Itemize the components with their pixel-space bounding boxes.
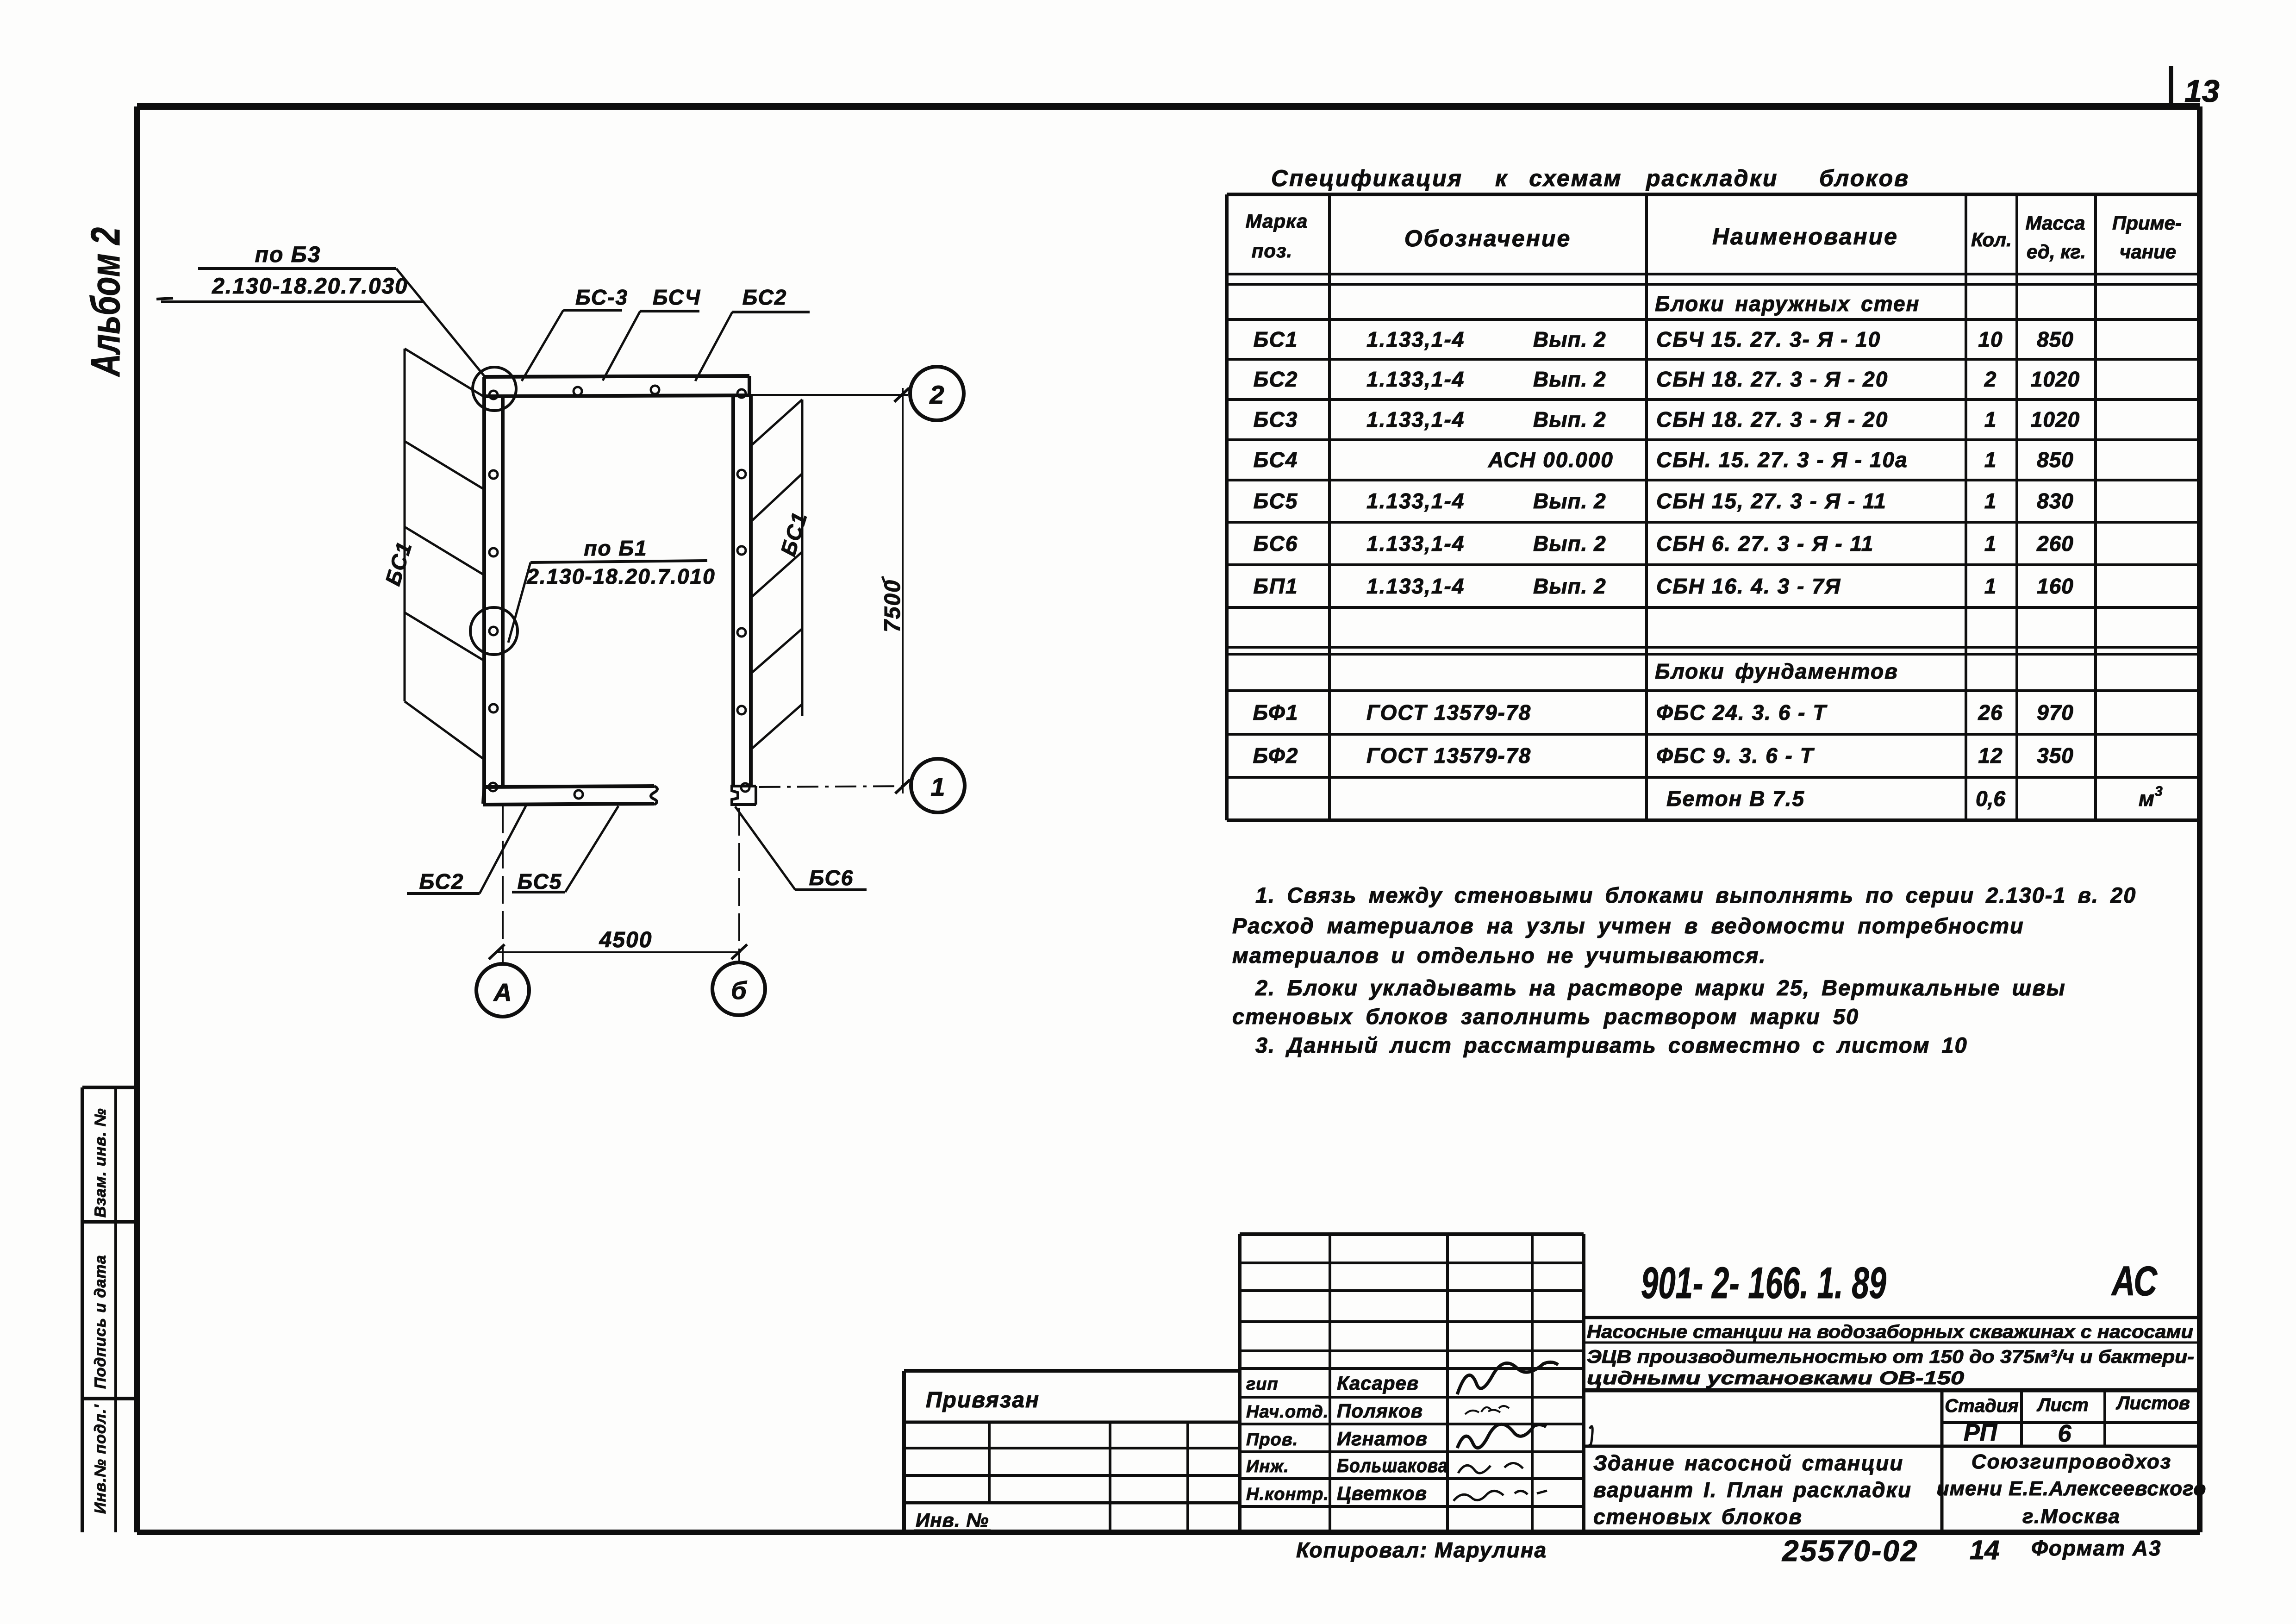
svg-text:Инж.: Инж.: [1246, 1457, 1289, 1476]
signatures: [1457, 1362, 1558, 1394]
svg-text:СБН 6. 27. 3 - Я - 11: СБН 6. 27. 3 - Я - 11: [1656, 531, 1874, 556]
wall block bottom-right БС6 piece: [732, 786, 756, 805]
svg-text:Насосные станции на водозаборн: Насосные станции на водозаборных скважин…: [1587, 1322, 2193, 1342]
svg-text:БС-3: БС-3: [575, 285, 628, 309]
svg-text:Обозначение: Обозначение: [1404, 225, 1572, 251]
svg-text:вариант I. План раскладки: вариант I. План раскладки: [1593, 1478, 1912, 1502]
svg-text:ФБС 24. 3. 6 - Т: ФБС 24. 3. 6 - Т: [1656, 700, 1828, 725]
svg-text:БС3: БС3: [1254, 407, 1298, 431]
svg-text:Кол.: Кол.: [1971, 229, 2012, 250]
svg-text:Вып. 2: Вып. 2: [1533, 531, 1606, 556]
svg-text:БС4: БС4: [1254, 448, 1298, 472]
svg-text:раскладки: раскладки: [1645, 165, 1778, 191]
svg-text:м: м: [2139, 787, 2155, 811]
svg-text:по Б3: по Б3: [255, 243, 321, 267]
bolt circles on walls: [489, 391, 498, 399]
sheet frame: [137, 103, 2200, 110]
svg-text:1.133,1-4: 1.133,1-4: [1366, 367, 1465, 391]
svg-text:26: 26: [1978, 700, 2003, 725]
svg-text:БФ1: БФ1: [1253, 700, 1299, 725]
svg-text:б: б: [731, 977, 747, 1005]
dimension 4500: [496, 951, 741, 953]
leader к по Б3: [396, 269, 484, 376]
svg-text:Инв. №: Инв. №: [916, 1509, 989, 1531]
svg-text:850: 850: [2037, 448, 2074, 472]
svg-text:1: 1: [1984, 407, 1997, 431]
svg-text:Блоки наружных стен: Блоки наружных стен: [1655, 292, 1920, 316]
spec table grid: [1227, 193, 2199, 196]
svg-text:Пров.: Пров.: [1246, 1430, 1298, 1449]
svg-text:БП1: БП1: [1253, 574, 1298, 598]
svg-text:по Б1: по Б1: [584, 536, 647, 560]
svg-text:СБН 15, 27. 3 - Я - 11: СБН 15, 27. 3 - Я - 11: [1656, 489, 1887, 513]
svg-text:Взам. инв. №: Взам. инв. №: [92, 1108, 109, 1218]
svg-text:АСН 00.000: АСН 00.000: [1488, 448, 1614, 472]
detail circle at mid left wall (по Б1): [470, 607, 518, 655]
axis 2 line and circle: [742, 394, 908, 396]
title block signature grid: [1240, 1232, 1584, 1236]
svg-text:12: 12: [1978, 743, 2003, 768]
svg-text:гип: гип: [1246, 1374, 1279, 1394]
svg-text:Инв.№ подл.': Инв.№ подл.': [92, 1404, 109, 1514]
svg-text:1.133,1-4: 1.133,1-4: [1366, 531, 1465, 556]
svg-text:Масса: Масса: [2026, 212, 2085, 234]
svg-text:БС2: БС2: [742, 285, 787, 309]
left strip box Подпись и дата: [82, 1397, 137, 1400]
axis circle Б: [712, 962, 765, 1015]
svg-text:СБН. 15. 27. 3 - Я - 10а: СБН. 15. 27. 3 - Я - 10а: [1656, 448, 1908, 472]
svg-text:Союзгипроводхоз: Союзгипроводхоз: [1972, 1450, 2171, 1473]
svg-text:БФ2: БФ2: [1253, 743, 1299, 768]
svg-text:СБН 18. 27. 3 - Я - 20: СБН 18. 27. 3 - Я - 20: [1656, 407, 1888, 431]
svg-text:14: 14: [1970, 1535, 2000, 1565]
svg-text:Игнатов: Игнатов: [1337, 1428, 1428, 1449]
axis 1 line and circle: [759, 786, 909, 787]
svg-text:Н.контр.: Н.контр.: [1246, 1485, 1329, 1504]
detail circle at top-left wall corner (по Б3): [473, 367, 516, 411]
svg-text:ГОСТ 13579-78: ГОСТ 13579-78: [1366, 743, 1531, 768]
svg-text:ФБС 9. 3. 6 - Т: ФБС 9. 3. 6 - Т: [1656, 743, 1815, 768]
hatch parallelogram left БС1: [404, 349, 406, 701]
svg-text:Вып. 2: Вып. 2: [1533, 489, 1606, 513]
svg-text:Цветков: Цветков: [1337, 1482, 1427, 1504]
svg-text:стеновых блоков: стеновых блоков: [1593, 1505, 1803, 1529]
svg-text:830: 830: [2037, 489, 2074, 513]
svg-text:13: 13: [2184, 74, 2220, 109]
title block right panel: [1582, 1234, 1585, 1532]
svg-text:чание: чание: [2120, 241, 2176, 262]
svg-text:Большакова: Большакова: [1337, 1455, 1448, 1476]
svg-text:3. Данный лист рассматривать: 3. Данный лист рассматривать совместно с…: [1255, 1033, 1968, 1057]
svg-text:3: 3: [2155, 784, 2163, 799]
svg-text:Марка: Марка: [1246, 210, 1308, 232]
svg-text:901- 2- 166. 1. 89: 901- 2- 166. 1. 89: [1641, 1258, 1886, 1308]
svg-text:6: 6: [2058, 1420, 2072, 1447]
svg-text:1: 1: [1984, 489, 1997, 513]
svg-text:Листов: Листов: [2115, 1393, 2190, 1413]
svg-text:Формат А3: Формат А3: [2031, 1536, 2162, 1560]
svg-text:имени Е.Е.Алексеевского: имени Е.Е.Алексеевского: [1937, 1477, 2207, 1500]
svg-text:4500: 4500: [599, 928, 653, 952]
svg-text:1: 1: [1984, 574, 1997, 598]
leader к по Б1: [508, 562, 530, 643]
svg-text:БСЧ: БСЧ: [653, 285, 701, 309]
svg-text:Наименование: Наименование: [1712, 224, 1898, 250]
svg-text:Лист: Лист: [2036, 1395, 2089, 1415]
wall block right БС1 column: [731, 395, 735, 786]
page number tick: [2169, 66, 2173, 108]
svg-text:г.Москва: г.Москва: [2022, 1505, 2121, 1528]
small mark: [1589, 1426, 1592, 1445]
svg-text:БС2: БС2: [419, 869, 464, 893]
svg-text:Вып. 2: Вып. 2: [1533, 367, 1606, 391]
wall block bottom БС2/БС5 row with break: [484, 786, 654, 787]
svg-text:1020: 1020: [2031, 367, 2080, 391]
svg-text:Привязан: Привязан: [926, 1388, 1040, 1412]
svg-text:260: 260: [2036, 531, 2074, 556]
svg-text:850: 850: [2037, 327, 2074, 351]
svg-text:160: 160: [2037, 574, 2074, 598]
svg-text:АС: АС: [2111, 1258, 2158, 1305]
svg-text:Бетон В 7.5: Бетон В 7.5: [1666, 787, 1805, 811]
svg-text:Вып. 2: Вып. 2: [1533, 327, 1606, 351]
svg-text:1.133,1-4: 1.133,1-4: [1366, 574, 1465, 598]
svg-text:25570-02: 25570-02: [1782, 1534, 1918, 1568]
svg-text:РП: РП: [1964, 1419, 1998, 1446]
svg-text:Спецификация: Спецификация: [1271, 165, 1463, 191]
svg-text:БС1: БС1: [1254, 327, 1298, 351]
svg-text:БС5: БС5: [1254, 489, 1298, 513]
svg-text:Нач.отд.: Нач.отд.: [1246, 1402, 1329, 1422]
svg-text:1.133,1-4: 1.133,1-4: [1366, 489, 1465, 513]
svg-text:Стадия: Стадия: [1945, 1396, 2018, 1416]
hatch parallelogram right БС1: [801, 400, 804, 716]
svg-text:1020: 1020: [2031, 407, 2080, 431]
svg-text:Блоки фундаментов: Блоки фундаментов: [1655, 659, 1898, 683]
svg-text:Вып. 2: Вып. 2: [1533, 407, 1606, 431]
svg-text:Расход материалов на узлы: Расход материалов на узлы учтен в ведомо…: [1232, 913, 2024, 938]
svg-text:ГОСТ 13579-78: ГОСТ 13579-78: [1366, 700, 1531, 725]
svg-text:2.130-18.20.7.010: 2.130-18.20.7.010: [526, 564, 715, 588]
left strip box Взам. инв. №: [82, 1086, 137, 1089]
svg-text:7500: 7500: [880, 579, 905, 632]
axis Б extension line: [738, 808, 740, 962]
svg-text:0,6: 0,6: [1976, 787, 2005, 811]
svg-text:Приме-: Приме-: [2112, 212, 2182, 234]
svg-text:БС5: БС5: [518, 869, 562, 893]
svg-text:А: А: [493, 979, 512, 1006]
svg-text:350: 350: [2037, 743, 2074, 768]
svg-text:2: 2: [929, 380, 944, 409]
svg-text:к схемам: к схемам: [1495, 165, 1622, 191]
svg-text:2.130-18.20.7.030: 2.130-18.20.7.030: [212, 274, 408, 299]
svg-text:цидными установками ОВ-150: цидными установками ОВ-150: [1587, 1368, 1964, 1388]
svg-text:1: 1: [1984, 448, 1997, 472]
svg-text:Подпись и дата: Подпись и дата: [92, 1255, 109, 1389]
svg-text:БС6: БС6: [1254, 531, 1298, 556]
svg-text:Здание насосной станции: Здание насосной станции: [1593, 1451, 1903, 1475]
svg-text:1. Связь между стеновыми бл: 1. Связь между стеновыми блоками выполня…: [1255, 883, 2136, 907]
svg-text:1: 1: [930, 772, 945, 801]
svg-text:Вып. 2: Вып. 2: [1533, 574, 1606, 598]
svg-text:Касарев: Касарев: [1337, 1372, 1419, 1394]
svg-text:СБН 18. 27. 3 - Я - 20: СБН 18. 27. 3 - Я - 20: [1656, 367, 1888, 391]
svg-text:1.133,1-4: 1.133,1-4: [1366, 327, 1465, 351]
wall block left БС1 column: [482, 377, 486, 804]
svg-text:БС2: БС2: [1254, 367, 1298, 391]
svg-text:ед, кг.: ед, кг.: [2027, 241, 2086, 262]
svg-text:1: 1: [1984, 531, 1997, 556]
svg-text:10: 10: [1978, 327, 2003, 351]
title block Привязан table: [904, 1369, 1240, 1373]
svg-text:СБН 16. 4. 3 - 7Я: СБН 16. 4. 3 - 7Я: [1656, 574, 1841, 598]
wall block top БС-3/БС4/БС2 row: [483, 376, 749, 377]
svg-text:материалов и отдельно не уч: материалов и отдельно не учитываются.: [1232, 943, 1766, 968]
svg-text:Альбом 2: Альбом 2: [82, 227, 128, 377]
axis А extension line: [502, 806, 504, 964]
axis circle А: [476, 964, 529, 1017]
svg-text:БС6: БС6: [809, 866, 854, 890]
svg-text:поз.: поз.: [1252, 240, 1292, 262]
svg-text:2. Блоки укладывать на рас: 2. Блоки укладывать на растворе марки 25…: [1255, 975, 2066, 1000]
svg-text:Копировал: Марулина: Копировал: Марулина: [1296, 1538, 1547, 1562]
svg-text:ЭЦВ производительностью от 150: ЭЦВ производительностью от 150 до 375м³/…: [1587, 1347, 2194, 1367]
svg-text:970: 970: [2037, 700, 2074, 725]
svg-text:СБЧ 15. 27. 3- Я - 10: СБЧ 15. 27. 3- Я - 10: [1656, 327, 1881, 351]
svg-text:Поляков: Поляков: [1337, 1400, 1423, 1422]
svg-text:1.133,1-4: 1.133,1-4: [1366, 407, 1465, 431]
svg-text:стеновых блоков заполнить р: стеновых блоков заполнить раствором марк…: [1232, 1004, 1859, 1029]
svg-text:2: 2: [1984, 367, 1997, 391]
dimension 7500 vertical: [902, 388, 904, 793]
svg-text:блоков: блоков: [1819, 165, 1909, 191]
